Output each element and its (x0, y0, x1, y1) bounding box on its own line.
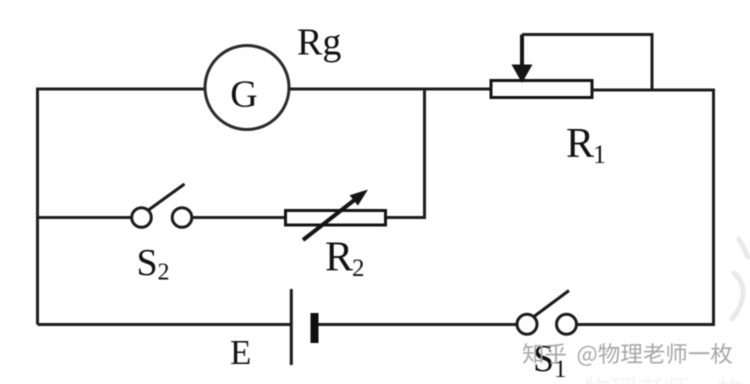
svg-text:1: 1 (593, 140, 606, 169)
svg-text:G: G (230, 74, 257, 116)
svg-text:E: E (230, 333, 251, 372)
wire wiper loop to right end of R1 (522, 35, 652, 90)
wire R1 right, right vertical rail, bottom-right wire (577, 90, 714, 325)
switch S1 (517, 291, 577, 335)
wire bottom-left rail to battery (38, 323, 291, 326)
label R1 (566, 121, 606, 169)
R1 wiper arrow (512, 35, 533, 84)
svg-text:Rg: Rg (297, 22, 341, 64)
watermark faint logo arc right edge (732, 239, 748, 319)
wire S2 to R2 (192, 216, 287, 219)
wire battery to switch S1 (319, 323, 518, 326)
wire top-left horizontal and left vertical rail (38, 89, 207, 325)
svg-text:2: 2 (158, 260, 170, 286)
wire R2 right to top wire (vertical riser) (385, 91, 425, 218)
wire left rail to switch S2 (38, 216, 132, 219)
svg-text:S: S (137, 242, 158, 284)
label S2 (137, 242, 170, 286)
svg-text:S: S (533, 338, 554, 380)
watermark faint second row (585, 377, 743, 384)
label R2 (325, 235, 365, 283)
galvanometer G (205, 46, 289, 130)
battery E (291, 289, 318, 365)
svg-text:R: R (566, 121, 594, 167)
potentiometer R1 body (491, 81, 592, 98)
svg-text:R: R (325, 235, 353, 281)
switch S2 (132, 184, 192, 227)
R2 arrow (diagonal) (303, 190, 368, 241)
label S1 (533, 338, 567, 383)
svg-text:2: 2 (352, 255, 365, 282)
watermark text 知乎 @物理老师一枚 (523, 343, 732, 366)
rheostat R2 body (286, 211, 386, 226)
wire from G to R1 (290, 88, 492, 91)
